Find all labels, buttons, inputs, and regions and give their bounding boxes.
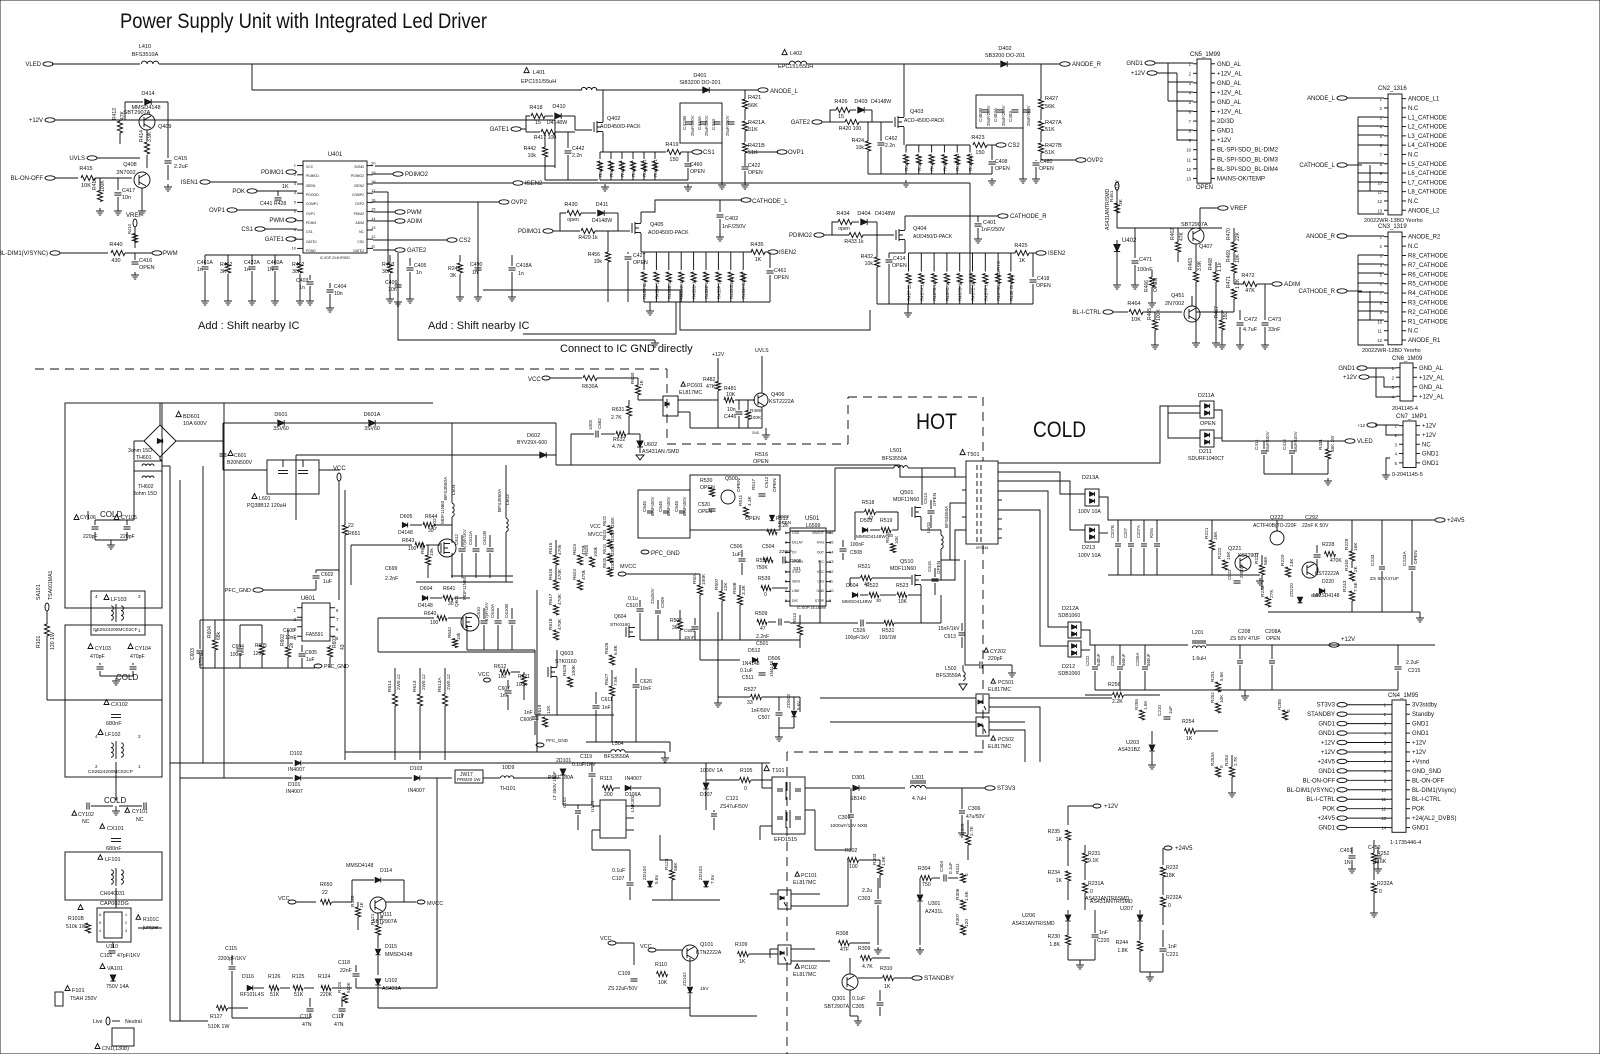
capacitor C402 bbox=[719, 200, 721, 212]
capacitor CX102 bbox=[104, 700, 109, 705]
svg-text:27K: 27K bbox=[1269, 589, 1275, 598]
svg-text:VCC: VCC bbox=[817, 570, 825, 574]
wire bbox=[1214, 410, 1345, 441]
svg-text:ANODE_L: ANODE_L bbox=[770, 89, 799, 95]
svg-text:CN6_1M09: CN6_1M09 bbox=[1392, 356, 1423, 362]
capacitor C509 bbox=[655, 610, 661, 612]
svg-text:CN5_1M99: CN5_1M99 bbox=[1190, 52, 1221, 58]
terminal CATHODE_L bbox=[741, 198, 751, 202]
svg-text:0.1uF: 0.1uF bbox=[740, 668, 753, 674]
wire bbox=[562, 790, 564, 805]
svg-text:R256: R256 bbox=[1108, 682, 1121, 688]
svg-text:CY101: CY101 bbox=[132, 809, 148, 815]
svg-text:C303: C303 bbox=[858, 896, 871, 902]
svg-text:R243: R243 bbox=[1342, 580, 1348, 592]
svg-text:5: 5 bbox=[1384, 741, 1387, 746]
wire bbox=[603, 151, 666, 153]
svg-text:Q301: Q301 bbox=[832, 996, 845, 1002]
capacitor C418 bbox=[1032, 253, 1034, 277]
svg-text:PDIMO1: PDIMO1 bbox=[306, 174, 319, 178]
svg-text:51K: 51K bbox=[748, 127, 758, 133]
svg-text:R294: R294 bbox=[1149, 527, 1154, 538]
svg-text:R622: R622 bbox=[602, 515, 607, 526]
svg-text:R527: R527 bbox=[744, 687, 757, 693]
svg-text:5.6K: 5.6K bbox=[1219, 671, 1224, 681]
svg-text:GATE2: GATE2 bbox=[791, 120, 811, 126]
svg-text:R616: R616 bbox=[548, 568, 554, 580]
svg-text:1K: 1K bbox=[739, 959, 746, 965]
svg-text:5: 5 bbox=[1395, 461, 1398, 466]
wire bbox=[602, 132, 604, 152]
wire bbox=[964, 560, 966, 665]
wire bbox=[545, 179, 598, 181]
svg-text:GND1: GND1 bbox=[1217, 129, 1234, 135]
capacitor C607 bbox=[505, 690, 512, 692]
svg-text:C210: C210 bbox=[1157, 705, 1162, 716]
capacitor C422A bbox=[251, 255, 253, 265]
ground bbox=[765, 432, 767, 435]
svg-text:3: 3 bbox=[138, 594, 141, 599]
svg-text:IN4007: IN4007 bbox=[286, 789, 303, 795]
svg-text:100: 100 bbox=[498, 674, 507, 680]
svg-text:1N: 1N bbox=[1344, 860, 1351, 866]
svg-text:47pF/1KV: 47pF/1KV bbox=[117, 953, 141, 959]
svg-text:R463: R463 bbox=[1188, 258, 1194, 270]
svg-text:1n: 1n bbox=[197, 267, 203, 273]
svg-text:C415: C415 bbox=[174, 156, 187, 162]
wire bbox=[1099, 497, 1435, 520]
svg-text:C422: C422 bbox=[748, 163, 761, 169]
capacitor CY101 bbox=[125, 808, 130, 813]
resistor R121 bbox=[375, 925, 380, 935]
svg-text:C606: C606 bbox=[520, 717, 532, 723]
svg-text:R470: R470 bbox=[1226, 228, 1232, 240]
svg-text:COLD: COLD bbox=[100, 510, 122, 519]
svg-text:OPEN: OPEN bbox=[1266, 636, 1281, 642]
svg-text:7.5K: 7.5K bbox=[1353, 581, 1359, 592]
svg-text:12: 12 bbox=[1186, 167, 1191, 172]
resistor column 330K bbox=[607, 526, 612, 535]
svg-text:SI83200 DO-201: SI83200 DO-201 bbox=[679, 80, 720, 86]
svg-text:750V 14A: 750V 14A bbox=[106, 984, 129, 990]
svg-text:L402: L402 bbox=[790, 51, 802, 57]
svg-text:GATE1: GATE1 bbox=[490, 127, 510, 133]
svg-text:R605: R605 bbox=[255, 643, 267, 649]
resistor R456 bbox=[605, 252, 610, 262]
svg-text:AS431ANTR/SMD: AS431ANTR/SMD bbox=[1012, 921, 1055, 927]
svg-text:R309: R309 bbox=[858, 946, 871, 952]
svg-text:4.7uF: 4.7uF bbox=[1243, 327, 1258, 333]
svg-text:C404: C404 bbox=[334, 284, 347, 290]
capacitor C472 bbox=[1239, 310, 1241, 320]
svg-text:Q604: Q604 bbox=[614, 614, 626, 620]
svg-text:13: 13 bbox=[829, 559, 834, 564]
wire bbox=[1002, 510, 1068, 646]
svg-text:11: 11 bbox=[1378, 190, 1383, 195]
svg-text:L1_CATHODE: L1_CATHODE bbox=[1408, 115, 1447, 121]
diode D103 bbox=[414, 775, 420, 780]
svg-text:1.1k: 1.1k bbox=[1217, 262, 1223, 272]
wire bbox=[170, 1020, 208, 1022]
svg-text:C472: C472 bbox=[1244, 317, 1257, 323]
diode D102 bbox=[295, 760, 301, 765]
svg-text:R651: R651 bbox=[348, 531, 361, 537]
svg-text:Q409: Q409 bbox=[158, 124, 171, 130]
wire bbox=[523, 302, 676, 334]
svg-text:CY106: CY106 bbox=[80, 515, 96, 521]
svg-text:BFS3550A: BFS3550A bbox=[497, 488, 503, 512]
svg-text:0: 0 bbox=[1379, 889, 1382, 895]
resistor R431 bbox=[1325, 449, 1330, 459]
ground bbox=[204, 298, 206, 301]
svg-text:R510: R510 bbox=[756, 558, 768, 564]
ground bbox=[1244, 693, 1246, 696]
resistor R101C bbox=[136, 915, 141, 920]
svg-text:R285: R285 bbox=[1277, 699, 1282, 710]
resistor R425 bbox=[1015, 250, 1029, 255]
svg-text:2k: 2k bbox=[289, 642, 295, 648]
svg-text:R429 1k: R429 1k bbox=[578, 235, 598, 241]
resistor network R443-R449B bbox=[600, 151, 655, 153]
svg-text:F101: F101 bbox=[72, 988, 85, 994]
svg-text:510k 1W: 510k 1W bbox=[66, 924, 87, 930]
resistor R402 bbox=[299, 255, 301, 262]
svg-text:CS1: CS1 bbox=[241, 227, 253, 233]
svg-text:10n: 10n bbox=[334, 291, 343, 297]
svg-text:R457C 12: R457C 12 bbox=[945, 281, 950, 301]
terminal +24V5 bbox=[1435, 518, 1445, 522]
wire bbox=[1384, 377, 1396, 387]
svg-text:R421B: R421B bbox=[748, 143, 765, 149]
svg-text:470pF: 470pF bbox=[90, 654, 105, 660]
wire bbox=[451, 575, 513, 577]
thermistor TH601 bbox=[134, 461, 162, 471]
svg-text:R447 1: R447 1 bbox=[904, 156, 909, 171]
svg-text:0: 0 bbox=[1286, 709, 1291, 712]
svg-text:R631: R631 bbox=[612, 407, 625, 413]
svg-text:R254: R254 bbox=[1182, 719, 1195, 725]
svg-text:C453A: C453A bbox=[993, 107, 998, 122]
svg-text:C511: C511 bbox=[742, 675, 754, 681]
svg-text:ISEN2: ISEN2 bbox=[1048, 251, 1066, 257]
capacitor C405 bbox=[409, 258, 411, 266]
svg-text:BL-DIM1(Vsync): BL-DIM1(Vsync) bbox=[1412, 788, 1456, 794]
svg-text:+12V: +12V bbox=[712, 352, 725, 358]
svg-text:R427: R427 bbox=[1045, 96, 1058, 102]
svg-text:BFS3550A: BFS3550A bbox=[882, 456, 908, 462]
svg-text:R101C: R101C bbox=[143, 917, 159, 923]
svg-text:T501: T501 bbox=[967, 452, 980, 458]
svg-text:1.8K: 1.8K bbox=[1117, 948, 1128, 954]
svg-text:L503: L503 bbox=[926, 522, 932, 533]
svg-text:R252: R252 bbox=[1377, 851, 1390, 857]
svg-text:C682: C682 bbox=[597, 418, 602, 429]
svg-text:VCC: VCC bbox=[590, 524, 601, 530]
svg-text:+12V: +12V bbox=[1412, 750, 1426, 756]
svg-text:16K: 16K bbox=[1353, 542, 1359, 551]
resistor R255 bbox=[1139, 710, 1144, 720]
svg-text:11: 11 bbox=[1187, 157, 1192, 162]
svg-text:100nF: 100nF bbox=[1137, 267, 1153, 273]
resistor R413 bbox=[117, 121, 122, 133]
svg-text:R472: R472 bbox=[1241, 273, 1254, 279]
terminal ANODE_R bbox=[1060, 62, 1070, 66]
svg-text:PDIM2: PDIM2 bbox=[354, 212, 364, 216]
svg-text:3SV60: 3SV60 bbox=[273, 426, 289, 432]
capacitor C406 bbox=[397, 278, 399, 283]
svg-text:R421: R421 bbox=[748, 95, 761, 101]
svg-text:10n: 10n bbox=[388, 287, 397, 293]
svg-text:R422: R422 bbox=[220, 262, 233, 268]
svg-text:R509: R509 bbox=[755, 611, 768, 617]
svg-text:PGOOD: PGOOD bbox=[306, 193, 319, 197]
svg-text:1.9K: 1.9K bbox=[881, 855, 887, 866]
svg-text:CY104: CY104 bbox=[135, 646, 151, 652]
svg-text:12K: 12K bbox=[546, 705, 552, 714]
resistor R221 bbox=[1209, 540, 1214, 550]
svg-text:33nF: 33nF bbox=[1268, 327, 1281, 333]
svg-text:51K: 51K bbox=[270, 992, 280, 998]
svg-text:12: 12 bbox=[1377, 199, 1382, 204]
svg-text:3: 3 bbox=[125, 929, 127, 933]
wire bbox=[179, 480, 181, 1021]
svg-text:1n: 1n bbox=[416, 270, 422, 276]
svg-text:MVCC: MVCC bbox=[588, 532, 603, 538]
wire bbox=[555, 422, 557, 424]
svg-text:C602: C602 bbox=[321, 572, 334, 578]
ground bbox=[654, 340, 656, 343]
svg-text:15: 15 bbox=[829, 540, 834, 545]
svg-text:R466: R466 bbox=[1144, 280, 1150, 292]
resistor R285 bbox=[1282, 710, 1287, 720]
resistor R465 bbox=[1152, 320, 1157, 330]
svg-text:R629: R629 bbox=[562, 664, 568, 676]
resistor R423 bbox=[973, 142, 987, 147]
terminal CS1 bbox=[692, 150, 702, 154]
terminal CS2 bbox=[447, 238, 457, 242]
svg-text:D402: D402 bbox=[998, 46, 1011, 52]
svg-text:VREF: VREF bbox=[126, 213, 142, 219]
resistor R622col2 bbox=[577, 555, 582, 565]
svg-text:OPEN: OPEN bbox=[772, 478, 778, 492]
resistor R422 bbox=[227, 255, 229, 262]
svg-text:Q451: Q451 bbox=[1171, 293, 1184, 299]
svg-text:4.7K: 4.7K bbox=[612, 444, 623, 450]
resistor R427B bbox=[1038, 143, 1043, 153]
svg-text:MMSD4148W: MMSD4148W bbox=[842, 599, 872, 605]
svg-text:IN4007: IN4007 bbox=[408, 788, 425, 794]
svg-text:ISEN2: ISEN2 bbox=[354, 184, 364, 188]
capacitor C610A bbox=[495, 620, 502, 622]
capacitor C401 bbox=[977, 216, 979, 222]
resistor R421 bbox=[742, 99, 747, 109]
terminal OVP2 bbox=[499, 200, 509, 204]
svg-text:Standby: Standby bbox=[1412, 712, 1434, 718]
svg-text:PWM: PWM bbox=[407, 210, 422, 216]
wire bbox=[112, 942, 114, 948]
svg-text:BL-I-CTRL: BL-I-CTRL bbox=[1072, 310, 1101, 316]
svg-text:GND_AL: GND_AL bbox=[1419, 385, 1444, 391]
svg-text:1: 1 bbox=[138, 764, 141, 769]
svg-text:D4148W: D4148W bbox=[871, 99, 891, 105]
svg-text:1n: 1n bbox=[518, 271, 524, 277]
capacitor C441 bbox=[277, 191, 279, 196]
svg-text:GND_AL: GND_AL bbox=[1217, 100, 1242, 106]
diode D403 bbox=[858, 107, 864, 113]
resistor R628 bbox=[589, 557, 594, 567]
transistor Q601 bbox=[461, 613, 479, 631]
svg-text:ZS 50V/47UF: ZS 50V/47UF bbox=[1370, 576, 1399, 582]
zener ZD101 bbox=[560, 769, 565, 775]
svg-text:68uF/100V: 68uF/100V bbox=[1293, 431, 1298, 452]
svg-text:10K: 10K bbox=[81, 183, 91, 189]
svg-text:R456: R456 bbox=[588, 252, 601, 258]
svg-text:0.1uF: 0.1uF bbox=[948, 862, 953, 874]
svg-text:6: 6 bbox=[1380, 282, 1383, 287]
transistor Q220 bbox=[1302, 562, 1318, 578]
svg-text:COLD: COLD bbox=[1033, 417, 1086, 442]
svg-text:GND1: GND1 bbox=[1318, 826, 1335, 832]
ground bbox=[721, 182, 723, 185]
svg-text:25uF/200V: 25uF/200V bbox=[1026, 105, 1031, 126]
svg-text:KST2222A: KST2222A bbox=[1315, 571, 1340, 577]
svg-text:R465: R465 bbox=[1147, 308, 1153, 320]
svg-text:ZD102: ZD102 bbox=[682, 972, 687, 986]
svg-text:OPEN: OPEN bbox=[1039, 166, 1054, 172]
resistor R470 bbox=[1231, 242, 1236, 252]
svg-text:C611: C611 bbox=[601, 697, 613, 703]
svg-text:13: 13 bbox=[1381, 816, 1386, 821]
svg-text:R464: R464 bbox=[1127, 301, 1140, 307]
svg-text:R231A: R231A bbox=[1088, 881, 1104, 887]
svg-text:6: 6 bbox=[1189, 110, 1192, 115]
resistor R222 bbox=[1222, 560, 1227, 570]
ground bbox=[857, 1018, 859, 1021]
terminal PWM2 bbox=[395, 210, 405, 214]
svg-text:68K 2W: 68K 2W bbox=[1330, 435, 1335, 452]
svg-text:2.2uF: 2.2uF bbox=[174, 164, 189, 170]
wire bbox=[169, 762, 171, 764]
svg-text:N.C: N.C bbox=[1408, 152, 1419, 158]
zener ZD103 bbox=[703, 881, 708, 887]
svg-text:330K: 330K bbox=[610, 517, 615, 527]
svg-text:L401: L401 bbox=[533, 70, 545, 76]
svg-text:R113: R113 bbox=[600, 776, 612, 782]
resistor R442 bbox=[542, 147, 547, 157]
svg-text:Live: Live bbox=[93, 1019, 103, 1025]
svg-text:R410: R410 bbox=[127, 223, 132, 234]
svg-text:2: 2 bbox=[1380, 106, 1383, 111]
capacitor C462 bbox=[880, 138, 882, 141]
svg-text:R531: R531 bbox=[882, 628, 895, 634]
svg-text:+24V5: +24V5 bbox=[1317, 759, 1335, 765]
svg-text:C107: C107 bbox=[612, 876, 625, 882]
wire bbox=[950, 503, 962, 560]
svg-text:U203: U203 bbox=[1126, 740, 1139, 746]
resistor R235 bbox=[1065, 830, 1070, 840]
resistor R232Ab bbox=[1371, 883, 1376, 893]
capacitor C416 bbox=[134, 253, 136, 260]
svg-text:CAP002DG: CAP002DG bbox=[100, 901, 129, 907]
capacitor C612 bbox=[459, 548, 466, 550]
svg-text:D220: D220 bbox=[1322, 579, 1334, 585]
svg-text:47K: 47K bbox=[120, 110, 126, 120]
svg-text:C418: C418 bbox=[1037, 276, 1050, 282]
svg-text:VREF: VREF bbox=[1230, 205, 1247, 212]
svg-text:PDIMO2: PDIMO2 bbox=[351, 174, 364, 178]
resistor network R447-R450B bbox=[906, 144, 970, 146]
svg-text:R619: R619 bbox=[537, 704, 543, 716]
svg-text:MMSD4148: MMSD4148 bbox=[346, 863, 374, 869]
svg-text:D602: D602 bbox=[527, 433, 540, 439]
wire bbox=[526, 116, 530, 129]
terminal ISEN2 bbox=[513, 181, 523, 185]
resistor network R455A-R455I bbox=[644, 251, 743, 253]
wire bbox=[1081, 630, 1188, 645]
svg-text:SDB1060: SDB1060 bbox=[1058, 613, 1080, 619]
diode D211A bbox=[1200, 401, 1214, 418]
svg-text:U301: U301 bbox=[928, 901, 941, 907]
wire bbox=[200, 619, 215, 621]
wire bbox=[556, 700, 558, 715]
svg-text:100K: 100K bbox=[100, 180, 106, 192]
EMI box2 bbox=[65, 625, 162, 700]
svg-text:C514: C514 bbox=[923, 493, 928, 504]
ground bbox=[1079, 962, 1081, 965]
svg-text:C460: C460 bbox=[690, 162, 703, 168]
ground bbox=[299, 298, 301, 301]
svg-text:CN2_1316: CN2_1316 bbox=[1378, 86, 1407, 92]
svg-text:R625: R625 bbox=[602, 557, 607, 568]
svg-text:R220: R220 bbox=[1280, 554, 1286, 566]
ground bbox=[1259, 578, 1261, 581]
resistor R307 bbox=[960, 925, 965, 935]
wire bbox=[52, 63, 140, 65]
svg-text:3: 3 bbox=[1380, 115, 1383, 120]
svg-text:UVLS: UVLS bbox=[69, 156, 85, 162]
svg-text:0: 0 bbox=[1168, 903, 1171, 909]
wire bbox=[832, 222, 838, 235]
svg-text:C109: C109 bbox=[618, 971, 631, 977]
svg-text:3.9K: 3.9K bbox=[1197, 260, 1203, 271]
svg-text:R120: R120 bbox=[350, 895, 356, 907]
wire bbox=[477, 202, 479, 290]
svg-text:14: 14 bbox=[1381, 826, 1386, 831]
svg-text:4.7uH: 4.7uH bbox=[912, 796, 926, 802]
svg-text:R650: R650 bbox=[320, 882, 333, 888]
svg-text:OUT: OUT bbox=[817, 550, 824, 554]
wire bbox=[483, 290, 870, 330]
svg-text:R253: R253 bbox=[1224, 755, 1229, 766]
node MVCC bbox=[386, 901, 416, 903]
svg-text:SDB1060: SDB1060 bbox=[1058, 671, 1080, 677]
resistor R243 bbox=[1349, 591, 1354, 601]
resistor R520 bbox=[890, 544, 895, 553]
capacitor C610 bbox=[481, 620, 488, 622]
wire bbox=[760, 825, 772, 827]
svg-text:D604: D604 bbox=[420, 586, 433, 592]
wire bbox=[1177, 91, 1193, 93]
svg-text:N.C: N.C bbox=[1408, 106, 1419, 112]
svg-text:R423: R423 bbox=[971, 135, 984, 141]
svg-text:C413B: C413B bbox=[682, 116, 687, 130]
svg-text:100k: 100k bbox=[516, 682, 527, 688]
svg-text:1nF/250V: 1nF/250V bbox=[981, 227, 1005, 233]
svg-text:EFD1515: EFD1515 bbox=[774, 837, 797, 843]
svg-text:Q601: Q601 bbox=[454, 595, 460, 607]
svg-text:470k: 470k bbox=[581, 544, 586, 555]
svg-text:R643: R643 bbox=[402, 538, 415, 544]
